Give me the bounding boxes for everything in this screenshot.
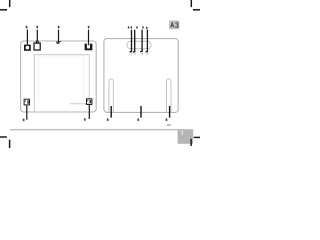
- foot bolt tick T3: [169, 106, 171, 118]
- callout digit below T2: [137, 118, 139, 121]
- right box (machine front view): [104, 39, 178, 113]
- crop mark bottom-right: [191, 137, 200, 146]
- callout digit 2 (wrench): [36, 26, 38, 29]
- callout digit 1 (top-left): [26, 26, 28, 29]
- callout digit 3 (middle): [58, 26, 60, 29]
- figure label badge A3: [169, 20, 179, 29]
- foot bolt tick T1: [110, 106, 112, 118]
- inner inset panel: [38, 56, 83, 102]
- inner back panel: [34, 55, 89, 112]
- footer rule: [10, 129, 179, 131]
- transit bolt B2 (top-right): [85, 44, 93, 52]
- page number tab: [178, 129, 194, 144]
- leader wire from bolt B4 down: [88, 105, 90, 119]
- hose wire H4: [146, 30, 148, 52]
- leader wire to spacer S1: [36, 30, 38, 42]
- callout digit 6 (below box, right): [84, 118, 86, 121]
- leader wire to bolt B1: [26, 30, 28, 45]
- callout digit 5 (below box, left): [23, 119, 25, 122]
- footer small text: [167, 124, 171, 126]
- callout digit 4 (top-right): [88, 26, 90, 29]
- hose wire H1: [130, 30, 132, 52]
- plastic spacer S1 (open square with tab): [34, 41, 40, 50]
- right foot slot: [167, 79, 172, 112]
- leader wire to bolt B2: [88, 30, 90, 44]
- transit bolt B1 (top-left): [24, 45, 31, 51]
- hose end dots: [130, 53, 148, 54]
- hose wire H3: [140, 30, 142, 52]
- screw mark M1 on top edge: [56, 41, 61, 44]
- crop mark top-right: [191, 0, 200, 10]
- callout digits above hoses: [128, 26, 130, 28]
- drain tick T2 (center): [140, 106, 142, 118]
- hose wire H2: [133, 30, 135, 52]
- callout digit below T1: [107, 118, 109, 121]
- leader wire to top edge mark: [58, 30, 60, 42]
- transit bolt B4 (bottom-right): [87, 99, 92, 105]
- callout digit below T3: [166, 118, 168, 121]
- crop mark top-left: [0, 0, 10, 10]
- left foot slot: [109, 79, 114, 112]
- recess pill at top: [127, 41, 151, 48]
- left box (machine rear view): [21, 41, 97, 112]
- crop mark bottom-left: [0, 137, 10, 148]
- leader wire from bolt B3 down: [26, 105, 28, 120]
- transit bolt B3 (bottom-left): [24, 99, 29, 105]
